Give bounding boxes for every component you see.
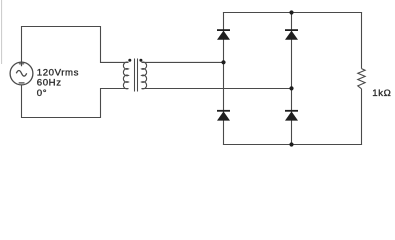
- junction node A: [221, 60, 225, 64]
- transformer T1 core: [135, 59, 138, 92]
- wire top rail: [223, 12, 362, 14]
- transformer T1 phase dot secondary: [139, 59, 142, 62]
- canvas edge line: [1, 0, 3, 64]
- transformer T1 phase dot primary: [128, 59, 131, 62]
- diode D3: [217, 111, 230, 121]
- wire source top to transformer primary top: [22, 27, 129, 63]
- wire secondary bottom to bridge node B: [142, 88, 292, 90]
- junction node B: [289, 86, 293, 90]
- junction top rail middle column: [289, 10, 293, 14]
- wire right column bottom: [361, 89, 363, 145]
- resistor R1: [358, 69, 365, 89]
- svg-text:60Hz: 60Hz: [37, 77, 62, 88]
- wire source bottom to transformer primary bottom: [22, 85, 129, 118]
- wire bridge middle column: [291, 12, 293, 145]
- wire bridge left column: [223, 12, 225, 145]
- svg-text:0°: 0°: [37, 88, 47, 99]
- svg-text:1kΩ: 1kΩ: [372, 88, 391, 99]
- wire bottom rail: [223, 144, 362, 146]
- wire right column top: [361, 12, 363, 69]
- diode D2: [285, 30, 298, 40]
- diode D4: [285, 111, 298, 121]
- wire secondary top to bridge node A: [142, 61, 224, 63]
- transformer T1 primary winding: [123, 62, 128, 89]
- label V1 value 120Vrms 60Hz 0deg: [37, 67, 79, 99]
- ac source V1: [10, 61, 33, 85]
- junction bottom rail middle column: [289, 142, 293, 146]
- transformer T1 secondary winding: [142, 62, 147, 89]
- diode D1: [217, 30, 230, 40]
